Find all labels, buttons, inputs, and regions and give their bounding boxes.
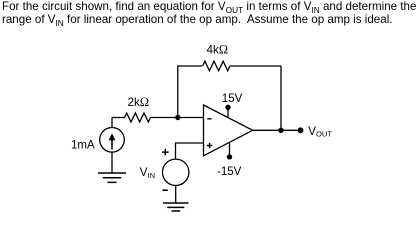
ground (current source): [98, 173, 126, 182]
op-amp plus sign: [207, 143, 212, 148]
wire: feedback top horizontal: [177, 65, 281, 67]
wire: output: [253, 129, 301, 131]
op-amp U1: [204, 105, 253, 156]
voltage source Vin circle: [163, 159, 189, 185]
svg-text:15V: 15V: [222, 93, 243, 105]
op-amp minus sign: [207, 118, 211, 120]
node: +15V terminal dot: [225, 105, 230, 110]
wire: feedback right vertical leg: [280, 66, 282, 130]
wire: +15V supply: [227, 108, 229, 118]
wire: feedback left vertical leg: [177, 66, 179, 118]
svg-text:VIN: VIN: [140, 167, 155, 180]
svg-text:4kΩ: 4kΩ: [207, 43, 229, 57]
wire: current source riser: [111, 118, 113, 128]
wire: noninverting input from Vin: [176, 143, 204, 159]
svg-text:1mA: 1mA: [71, 140, 95, 152]
label plus polarity of Vin: [162, 149, 169, 156]
node: -15V terminal dot: [227, 154, 232, 159]
svg-text:VOUT: VOUT: [308, 126, 332, 138]
svg-text:2kΩ: 2kΩ: [128, 95, 150, 109]
node: junction inverting input / feedback: [175, 115, 180, 120]
current source I1 1mA circle: [100, 128, 125, 153]
svg-text:-15V: -15V: [217, 166, 242, 178]
node: output/feedback junction: [278, 128, 283, 133]
label minus polarity of Vin: [163, 189, 168, 191]
resistor R_f 4k zigzag: [203, 61, 230, 71]
resistor R1 2k zigzag: [125, 113, 151, 122]
ground (Vin): [163, 203, 189, 211]
wire: inverting input horizontal: [112, 117, 204, 119]
wire: -15V supply: [229, 142, 231, 157]
wire: Vin to ground: [175, 186, 177, 204]
wire: current source to ground: [111, 152, 113, 173]
current source arrow: [111, 139, 113, 150]
node: Vout terminal dot: [298, 127, 304, 133]
